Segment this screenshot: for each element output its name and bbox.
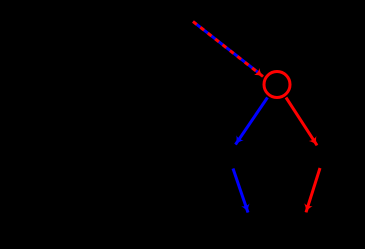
red edge 1 (286, 98, 317, 146)
blue edge 2 (233, 169, 248, 213)
node circle (264, 72, 290, 98)
blue edge 1 (236, 98, 268, 145)
red edge 2 (306, 168, 320, 212)
dashed arrow (red dashes + head) (193, 22, 263, 77)
dashed arrow (blue base) (193, 22, 260, 74)
